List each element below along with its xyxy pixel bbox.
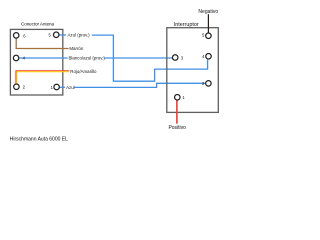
svg-text:Hirschmann Auta 6000 EL: Hirschmann Auta 6000 EL: [10, 136, 68, 142]
wire positivo: [176, 100, 178, 123]
wire azul (prov.) from pin 5 to label: [59, 34, 66, 36]
switch pin 2: [206, 81, 212, 87]
svg-text:Marrón: Marrón: [69, 46, 83, 51]
wire rojo/amarillo (red stripe) from pin 2: [16, 71, 69, 84]
svg-text:Interruptor: Interruptor: [174, 22, 199, 28]
wire azul (prov.) label to switch pin 4: [92, 35, 208, 81]
svg-text:Azul (prov.): Azul (prov.): [68, 32, 91, 37]
wire rojo/amarillo (yellow stripe): [17, 72, 69, 84]
switch pin 5: [206, 33, 212, 39]
svg-text:Conector Antena: Conector Antena: [21, 21, 55, 26]
switch pin 1: [175, 94, 181, 100]
svg-text:Blanco/azul (prov.): Blanco/azul (prov.): [69, 55, 106, 60]
pin 2: [14, 84, 20, 90]
svg-text:Negativo: Negativo: [198, 9, 218, 15]
wire azul from pin 1 to label: [60, 86, 65, 88]
pin 6: [13, 33, 19, 39]
wire blanco/azul from pin 4 to label: [19, 57, 67, 59]
connector box J1 (Conector Antena): [10, 29, 62, 95]
svg-text:Rojo/Amarillo: Rojo/Amarillo: [70, 69, 97, 74]
switch pin 3: [172, 55, 178, 61]
wire blanco/azul label to switch pin 3: [104, 57, 172, 59]
pin 5: [53, 32, 59, 38]
wire negativo: [207, 14, 209, 33]
pin 1: [54, 84, 60, 90]
switch box S1 (Interruptor): [167, 28, 219, 113]
switch pin 4: [206, 54, 212, 60]
pin 4: [13, 55, 19, 61]
wire marron (brown) from pin 6: [16, 38, 68, 48]
svg-text:Positivo: Positivo: [168, 125, 186, 131]
svg-text:Azul: Azul: [66, 85, 75, 90]
wire azul label to switch pin 2: [74, 83, 205, 87]
